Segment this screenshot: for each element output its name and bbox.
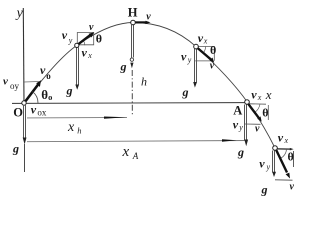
H point: v arrow <box>136 21 151 24</box>
svg-text:v: v <box>181 50 187 64</box>
svg-text:O: O <box>13 106 23 120</box>
P1 point circle <box>75 43 79 47</box>
svg-text:A: A <box>233 104 242 118</box>
svg-text:g: g <box>66 84 73 98</box>
svg-text:g: g <box>182 85 189 99</box>
svg-text:v: v <box>3 76 8 88</box>
g arrow below O <box>23 105 27 145</box>
vector v0 <box>25 80 42 102</box>
P3 theta arc <box>280 149 286 159</box>
svg-text:y: y <box>68 36 73 45</box>
P3 rectangle <box>275 151 294 180</box>
A rectangle <box>245 104 269 125</box>
svg-text:x: x <box>257 93 262 102</box>
svg-text:x: x <box>284 136 289 145</box>
svg-text:g: g <box>261 183 268 197</box>
svg-text:g: g <box>120 60 127 74</box>
svg-text:ox: ox <box>37 107 47 117</box>
svg-text:g: g <box>12 142 19 156</box>
svg-text:θ: θ <box>262 106 268 120</box>
svg-text:x: x <box>122 144 130 160</box>
P1 vector v <box>78 32 94 45</box>
svg-text:x: x <box>265 87 272 102</box>
svg-text:H: H <box>128 6 138 20</box>
svg-text:v: v <box>40 63 46 77</box>
A point circle <box>245 100 250 105</box>
svg-text:v: v <box>89 22 94 33</box>
svg-text:y: y <box>187 55 192 64</box>
H vertex circle <box>131 20 136 25</box>
svg-text:v: v <box>290 182 295 193</box>
A vector v <box>248 104 262 122</box>
P2 vector v <box>198 48 215 63</box>
svg-text:v: v <box>82 46 88 60</box>
P1 rectangle (components box) <box>77 33 93 46</box>
svg-text:x: x <box>87 51 92 60</box>
x-axis <box>12 102 245 105</box>
svg-text:y: y <box>15 6 24 21</box>
xh measurement line <box>27 116 127 119</box>
A g arrow <box>244 105 248 147</box>
svg-text:h: h <box>141 75 147 89</box>
svg-text:θ: θ <box>96 32 102 46</box>
P2 point circle <box>194 44 199 49</box>
svg-text:y: y <box>266 163 271 172</box>
xA measurement line <box>27 141 247 142</box>
svg-text:v: v <box>278 131 284 145</box>
xh arrow <box>104 117 126 119</box>
svg-text:o: o <box>46 71 51 81</box>
svg-text:θ: θ <box>210 43 216 57</box>
H g arrow <box>132 25 134 58</box>
svg-text:h: h <box>77 126 81 136</box>
svg-text:v: v <box>62 28 68 42</box>
svg-text:θ: θ <box>288 150 294 164</box>
svg-text:o: o <box>48 92 52 102</box>
svg-text:g: g <box>237 145 244 159</box>
svg-text:x: x <box>67 120 75 135</box>
P3 vector v <box>276 150 290 179</box>
svg-text:v: v <box>251 88 257 102</box>
H g arrowhead <box>130 63 133 69</box>
P1 g arrow <box>75 48 79 90</box>
origin point O <box>22 101 26 105</box>
P2 theta arc <box>203 47 206 54</box>
xA arrow <box>222 139 237 142</box>
svg-text:y: y <box>238 123 243 132</box>
vertical reference line below O <box>24 144 26 172</box>
h dash-dot line <box>131 70 133 115</box>
angle theta0 arc <box>32 92 38 103</box>
P1 theta arc <box>83 40 85 45</box>
H g small circle <box>130 58 133 61</box>
trajectory <box>24 23 275 149</box>
P3 g arrow <box>272 151 276 178</box>
A theta arc <box>255 104 260 112</box>
P2 rectangle <box>195 47 214 61</box>
svg-text:v: v <box>31 102 37 116</box>
P2 g arrow <box>193 49 197 88</box>
svg-text:v: v <box>146 12 151 23</box>
svg-text:x: x <box>203 37 208 46</box>
svg-text:oy: oy <box>10 81 20 91</box>
svg-text:v: v <box>255 124 260 135</box>
svg-text:v: v <box>233 118 239 132</box>
svg-text:v: v <box>259 157 265 171</box>
svg-text:A: A <box>132 151 139 161</box>
P3 point circle <box>273 146 278 151</box>
svg-text:v: v <box>210 61 215 72</box>
y-axis <box>22 8 25 103</box>
v0y tick line <box>24 81 40 84</box>
